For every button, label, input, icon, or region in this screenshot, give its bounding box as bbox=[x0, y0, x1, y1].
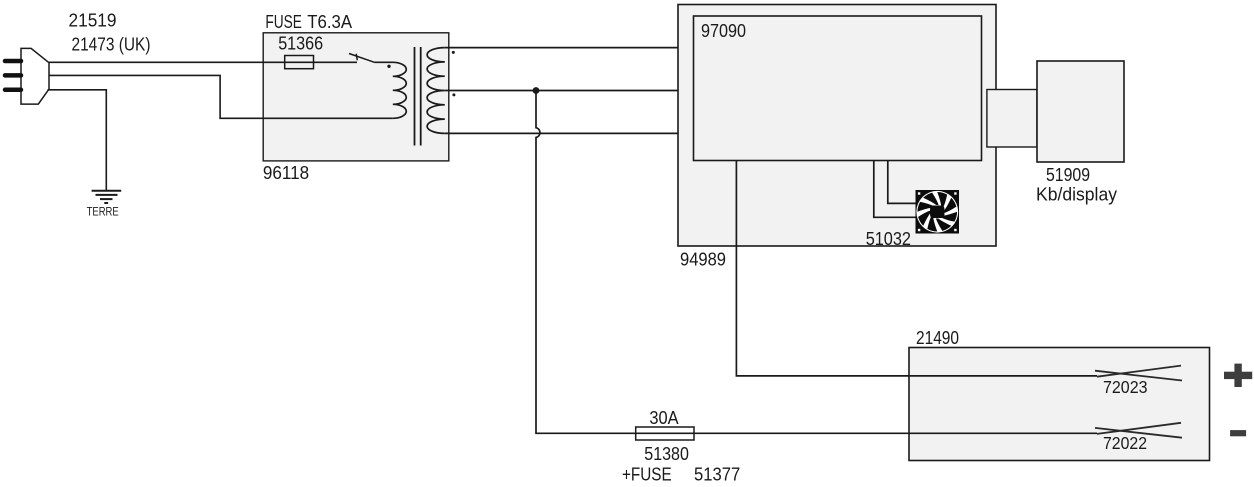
svg-text:51909: 51909 bbox=[1046, 164, 1090, 185]
wire junction down to 30A fuse line (with hop over bottom wire) bbox=[536, 91, 909, 434]
fuse F1 51366 bbox=[285, 56, 314, 69]
secondary polarity dot top bbox=[452, 51, 455, 54]
box 51909 Kb/display bbox=[1037, 61, 1124, 162]
fuse 30A 51380 bbox=[636, 427, 694, 440]
svg-text:72022: 72022 bbox=[1103, 433, 1147, 453]
svg-text:+FUSE: +FUSE bbox=[622, 464, 672, 485]
wire secondary top to 94989 bbox=[445, 47, 678, 49]
svg-text:30A: 30A bbox=[649, 407, 679, 428]
svg-text:51032: 51032 bbox=[866, 228, 911, 249]
minus terminal bbox=[1230, 430, 1246, 436]
svg-text:T6.3A: T6.3A bbox=[307, 11, 352, 32]
secondary polarity dot mid bbox=[452, 93, 455, 96]
svg-text:21473 (UK): 21473 (UK) bbox=[72, 33, 151, 54]
box 97090 (inner pcb) bbox=[694, 16, 982, 161]
mains plug bbox=[21, 48, 49, 104]
svg-text:21490: 21490 bbox=[916, 327, 959, 348]
plug prong 2 bbox=[5, 73, 21, 78]
svg-text:96118: 96118 bbox=[263, 162, 309, 183]
wire plus: 97090 down to battery box bbox=[736, 161, 909, 376]
wire live: plug to fuse bbox=[49, 61, 357, 63]
transformer T1 secondary winding bbox=[427, 48, 445, 134]
transformer core bbox=[414, 47, 416, 146]
plug prong 1 bbox=[5, 59, 21, 64]
splice 72023 (plus lead) bbox=[1095, 371, 1182, 381]
box 21490 (battery terminals) bbox=[909, 348, 1210, 461]
transformer T1 primary winding bbox=[374, 62, 406, 118]
svg-text:Kb/display: Kb/display bbox=[1036, 184, 1118, 205]
svg-text:72023: 72023 bbox=[1103, 377, 1148, 397]
ground TERRE symbol bbox=[92, 191, 122, 203]
wire secondary middle to 94989 bbox=[445, 90, 678, 92]
junction node on middle wire bbox=[533, 87, 540, 94]
primary polarity dot bbox=[387, 65, 390, 68]
switch S1 bbox=[349, 54, 374, 63]
svg-text:51380: 51380 bbox=[644, 443, 689, 464]
box 94989 (power supply outer) bbox=[678, 5, 996, 247]
svg-text:FUSE: FUSE bbox=[265, 11, 302, 32]
svg-text:51377: 51377 bbox=[694, 464, 740, 485]
plus terminal bbox=[1224, 364, 1252, 387]
svg-text:97090: 97090 bbox=[701, 20, 746, 41]
svg-text:51366: 51366 bbox=[278, 33, 323, 54]
svg-text:21519: 21519 bbox=[69, 10, 117, 31]
box 96118 (fuse/transformer module) bbox=[263, 33, 449, 161]
wire neutral: plug to transformer primary bottom bbox=[49, 75, 393, 118]
wire fan 2 bbox=[874, 161, 916, 218]
wire fan 1 bbox=[888, 161, 916, 204]
wire secondary bottom to 94989 bbox=[445, 132, 678, 134]
svg-text:94989: 94989 bbox=[680, 249, 726, 270]
wire plus inside battery box bbox=[909, 375, 1097, 377]
wire minus inside battery box bbox=[909, 432, 1097, 434]
wire earth: plug to ground bbox=[48, 90, 107, 191]
svg-text:TERRE: TERRE bbox=[87, 207, 119, 219]
splice 72022 (minus lead) bbox=[1095, 428, 1182, 438]
connector between 97090 and keyboard/display bbox=[987, 90, 1037, 148]
plug prong 3 bbox=[5, 88, 21, 93]
fan 51032 bbox=[914, 188, 961, 235]
